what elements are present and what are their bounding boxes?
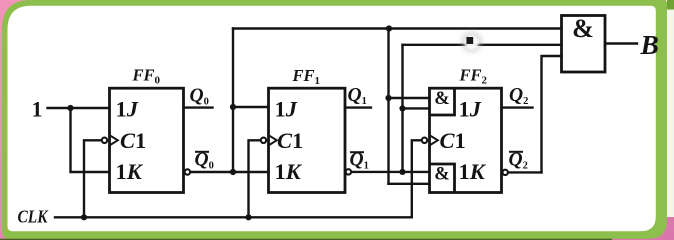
- overbar of Q0bar: [195, 151, 209, 153]
- wire: input 1 lead to FF0 1J: [48, 107, 110, 109]
- svg-text:&: &: [572, 14, 594, 43]
- dynamic input triangle FF0 C1: [110, 135, 118, 145]
- inversion bubble Q0bar: [185, 169, 190, 174]
- svg-text:1J: 1J: [275, 96, 298, 121]
- AND gate U1: [562, 16, 606, 73]
- junction: FF2 J-AND input 2: [399, 105, 405, 111]
- svg-text:CLK: CLK: [18, 207, 50, 227]
- junction: FF2 J-AND input 1: [385, 95, 391, 101]
- overbar of Q2bar: [509, 151, 523, 153]
- flip-flop FF2: [430, 88, 502, 192]
- svg-text:B: B: [640, 29, 659, 60]
- clock bubble FF1 C1: [261, 138, 266, 143]
- FF2 embedded AND box (J input): [430, 88, 455, 115]
- junction: Q1bar line riser: [399, 169, 405, 175]
- wire: input 1 branch down to FF0 1K: [71, 108, 110, 172]
- wire: CLK bus: [55, 216, 412, 218]
- inversion bubble Q2bar: [503, 170, 508, 175]
- junction: top rail branch: [386, 25, 392, 31]
- wire: CLK riser to FF2 C1: [412, 140, 421, 217]
- wire: Q2bar riser to AND gate: [542, 56, 562, 172]
- wire: FF2 J-AND input 1: [389, 97, 430, 99]
- svg-text:C1: C1: [440, 128, 466, 153]
- wire: FF2 K-AND input 2: [389, 183, 430, 185]
- wire: top rail Q0bar to AND gate: [233, 27, 562, 29]
- wire: Q0bar tee to FF1 1J: [233, 106, 269, 108]
- wire: CLK riser to FF0 C1: [84, 140, 101, 217]
- FF2 embedded AND box (K input): [430, 164, 455, 193]
- clock bubble FF0 C1: [102, 138, 107, 143]
- wire: Q2bar line: [509, 171, 542, 173]
- wire: Q1bar line to FF2 K-AND input: [352, 171, 429, 173]
- junction: input 1 branch: [67, 105, 73, 111]
- dynamic input triangle FF1 C1: [269, 135, 277, 145]
- wire: Q0bar line to FF1 1K: [191, 171, 268, 173]
- wire: Q1bar riser: [401, 45, 403, 172]
- svg-text:C1: C1: [120, 128, 146, 153]
- inversion bubble Q1bar: [346, 169, 351, 174]
- junction: riser to FF1 1J: [230, 104, 236, 110]
- wire: Q1 output stub: [345, 106, 371, 108]
- junction: CLK to FF0: [81, 214, 87, 220]
- svg-text:1J: 1J: [116, 96, 139, 121]
- svg-text:1J: 1J: [459, 96, 482, 121]
- svg-text:1K: 1K: [459, 159, 487, 184]
- cursor artifact: [462, 32, 482, 52]
- dynamic input triangle FF2 C1: [430, 135, 438, 145]
- clock bubble FF2 C1: [422, 138, 427, 143]
- svg-text:&: &: [434, 164, 449, 184]
- wire: AND gate output B: [605, 42, 637, 44]
- svg-text:&: &: [434, 89, 449, 109]
- wire: FF2 J-AND input 2: [403, 107, 430, 109]
- wire: Q0bar riser: [232, 29, 234, 173]
- flip-flop FF1: [269, 88, 346, 192]
- wire: Q0bar branch riser at FF2: [387, 29, 389, 184]
- wire: CLK riser to FF1 C1: [249, 140, 260, 217]
- svg-text:1: 1: [32, 97, 43, 122]
- junction: Q0bar line riser: [230, 169, 236, 175]
- wire: second rail Q1bar to AND gate: [403, 44, 562, 46]
- wire: Q2 output stub: [502, 106, 533, 108]
- svg-text:1K: 1K: [275, 159, 303, 184]
- flip-flop FF0: [110, 88, 184, 192]
- wire: Q0 output stub: [184, 106, 213, 108]
- svg-text:1K: 1K: [116, 159, 144, 184]
- junction: CLK to FF1: [245, 214, 251, 220]
- overbar of Q1bar: [350, 151, 364, 153]
- svg-text:C1: C1: [277, 128, 303, 153]
